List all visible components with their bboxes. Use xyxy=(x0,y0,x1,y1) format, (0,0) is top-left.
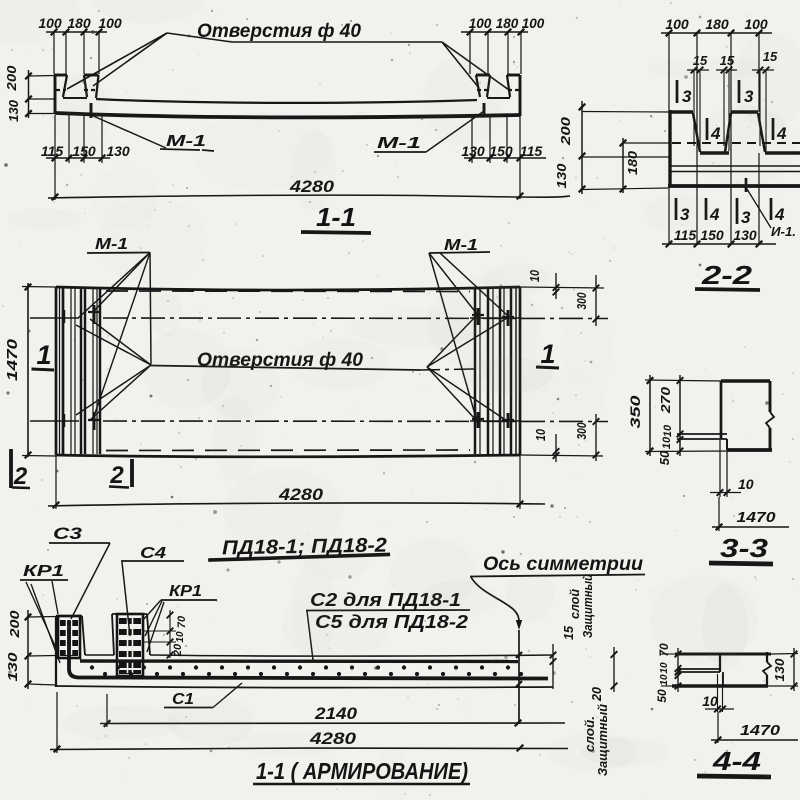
dimensions 15-15-15 of section 2-2 xyxy=(687,49,778,151)
svg-text:130: 130 xyxy=(5,651,20,681)
cover layer 20 dimension (zashchitny sloy) xyxy=(582,647,617,776)
label C1 with leader xyxy=(164,683,242,708)
svg-text:10: 10 xyxy=(662,424,674,437)
dimension 4280, section 1-1 xyxy=(48,163,570,200)
dimensions 10 and 300 top-right of plan xyxy=(520,269,604,326)
dimension 10 below section 4-4 xyxy=(702,674,734,712)
svg-text:130: 130 xyxy=(772,658,787,682)
dimension 130 right of section 4-4 xyxy=(768,648,798,691)
dashed hidden lines in plan xyxy=(106,291,470,451)
svg-text:1470: 1470 xyxy=(740,722,781,739)
rebar cage KR1 number 1 xyxy=(58,616,80,658)
svg-text:200: 200 xyxy=(4,65,19,92)
svg-text:1470: 1470 xyxy=(737,509,777,526)
dimension 1470 left of plan xyxy=(4,283,56,458)
svg-text:Отверстия ф 40: Отверстия ф 40 xyxy=(197,21,361,42)
dimensions 10 and 300 bottom-right of plan xyxy=(520,414,603,462)
svg-text:130: 130 xyxy=(733,227,757,243)
dimension 115-150-130 bottom of section 2-2 xyxy=(662,153,776,247)
plan view slab outline xyxy=(56,287,520,457)
dimensions 70-10-10-50 left of section 4-4 xyxy=(655,643,681,703)
bottom rebar C1 bent bar xyxy=(69,621,548,679)
section mark 2 far-left below plan xyxy=(11,449,30,490)
dimension 180 inner-left of section 2-2 xyxy=(620,138,671,193)
hole leader fan in plan xyxy=(76,315,507,421)
title 1-1 xyxy=(301,202,371,233)
svg-text:2140: 2140 xyxy=(314,704,358,723)
dimension 4280 below plan xyxy=(48,455,545,509)
svg-text:3-3: 3-3 xyxy=(720,533,769,563)
small dimensions 70-10-20 near cage 2 xyxy=(143,610,188,658)
rebar callout 3, right rib section 2-2 xyxy=(739,80,754,106)
ribs of section 2-2 xyxy=(670,112,765,152)
svg-text:100: 100 xyxy=(522,16,545,31)
svg-text:С3: С3 xyxy=(53,524,83,543)
svg-text:Защитный: Защитный xyxy=(580,574,595,638)
rebar callouts 3-4-3-4 below body, section 2-2 xyxy=(676,198,785,227)
right end block of slab, section 1-1 xyxy=(476,75,520,117)
dimension 200 and 130 left of section 2-2 xyxy=(554,101,670,194)
title 2-2 xyxy=(695,260,760,290)
title 1-1 (armirovanie) xyxy=(253,758,470,784)
rebar callout 3, left rib section 2-2 xyxy=(677,80,692,106)
svg-text:3: 3 xyxy=(682,87,692,106)
svg-text:КР1: КР1 xyxy=(169,583,202,600)
svg-text:100: 100 xyxy=(744,16,768,32)
label M-1 left, plan xyxy=(78,236,151,419)
section mark 1 left of plan xyxy=(32,340,55,370)
svg-text:200: 200 xyxy=(7,610,22,639)
svg-text:180: 180 xyxy=(496,16,519,31)
centre line and label 'Otverstiya f40' in plan xyxy=(151,350,474,371)
right end rib lines in plan xyxy=(475,288,511,454)
section mark 2 mid below plan xyxy=(109,459,132,489)
anchor rows and M-1 cross marks in plan xyxy=(30,305,520,430)
dimension 10 below section 3-3 xyxy=(710,440,754,497)
svg-text:200: 200 xyxy=(558,116,573,146)
dimensions 270-10-10-50 of section 3-3 xyxy=(657,375,683,465)
svg-text:130: 130 xyxy=(6,99,21,122)
svg-text:2: 2 xyxy=(109,462,124,489)
svg-text:300: 300 xyxy=(574,292,589,310)
label C4 with leader xyxy=(121,545,184,636)
svg-text:10: 10 xyxy=(661,436,673,449)
dimension 100-180-100 top-right of section 1-1 xyxy=(461,16,545,74)
svg-text:М-1: М-1 xyxy=(377,135,421,152)
dimension 1470 of section 3-3 xyxy=(712,497,789,531)
svg-text:С4: С4 xyxy=(140,545,166,562)
embedded item mark I-1 with leader, section 2-2 xyxy=(746,178,796,239)
svg-text:130: 130 xyxy=(106,143,130,159)
rebar callout 4, between ribs section 2-2 xyxy=(707,118,721,143)
top rebar C2/C5 bar xyxy=(80,659,518,663)
svg-text:Ось симметрии: Ось симметрии xyxy=(483,554,643,575)
upper transverse bar dots xyxy=(90,665,510,669)
section mark 1 right of plan xyxy=(536,339,559,369)
svg-text:50: 50 xyxy=(657,450,672,465)
svg-text:50: 50 xyxy=(655,689,669,703)
svg-text:115: 115 xyxy=(520,143,543,159)
cover layer 15 dimension (zashchitny sloy) xyxy=(550,574,595,689)
svg-text:1: 1 xyxy=(36,340,51,370)
label holes 'Otverstiya f40' with leader lines (section 1-1) xyxy=(67,21,509,90)
svg-text:10: 10 xyxy=(702,693,718,709)
label C3 with leader xyxy=(49,524,110,619)
lower transverse bar dots xyxy=(103,672,523,676)
title 4-4 xyxy=(697,746,771,777)
title 3-3 xyxy=(709,533,773,564)
dimension 100-180-100 top of section 2-2 xyxy=(661,16,772,244)
svg-text:4: 4 xyxy=(774,205,785,224)
label axis of symmetry with curved leader and arrow xyxy=(470,554,645,724)
svg-text:1-1 ( АРМИРОВАНИЕ): 1-1 ( АРМИРОВАНИЕ) xyxy=(256,758,468,784)
svg-text:3: 3 xyxy=(741,208,751,227)
svg-text:15: 15 xyxy=(562,625,576,640)
left end block of slab, section 1-1 xyxy=(54,75,99,118)
dimension 130-150-115 bottom-right of section 1-1 xyxy=(461,116,546,163)
section 3-3 body xyxy=(677,381,774,450)
dimension 200 and 130 left of section 1-1 xyxy=(4,65,56,122)
label M-1 left, section 1-1 xyxy=(91,115,214,151)
slab body lines, section 1-1 xyxy=(55,99,520,117)
svg-text:20: 20 xyxy=(590,687,604,702)
svg-text:10: 10 xyxy=(659,662,670,674)
label C2/C5 block with leader xyxy=(306,590,470,660)
svg-text:130: 130 xyxy=(554,163,569,189)
svg-text:350: 350 xyxy=(627,395,643,428)
svg-text:100: 100 xyxy=(665,16,689,32)
svg-text:10: 10 xyxy=(175,631,186,643)
svg-text:20: 20 xyxy=(172,643,184,657)
dimension 115-150-130 bottom-left of section 1-1 xyxy=(41,115,130,163)
svg-text:180: 180 xyxy=(625,150,640,175)
svg-text:10: 10 xyxy=(533,428,548,441)
svg-text:КР1: КР1 xyxy=(23,563,64,580)
svg-text:слой: слой xyxy=(567,589,582,619)
concrete outline of armature view xyxy=(56,614,553,688)
rebar callout 4, right of ribs section 2-2 xyxy=(773,118,787,143)
svg-text:И-1.: И-1. xyxy=(771,224,796,239)
svg-text:4-4: 4-4 xyxy=(712,746,762,776)
svg-text:115: 115 xyxy=(41,143,64,159)
svg-text:10: 10 xyxy=(738,476,754,492)
rebar cage KR1 number 2 xyxy=(117,614,143,676)
dimension 200 and 130 left of armature view xyxy=(5,610,56,689)
dimension 1470 of section 4-4 xyxy=(711,712,798,743)
label KR1 first with leader fan xyxy=(20,563,68,663)
label M-1 right, plan xyxy=(429,237,508,418)
label M-1 right, section 1-1 xyxy=(374,111,484,152)
dimension 4280 below armature view xyxy=(50,692,568,753)
section 4-4 body xyxy=(661,652,771,686)
dimension 100-180-100 top-left of section 1-1 xyxy=(38,15,122,74)
svg-text:180: 180 xyxy=(705,16,729,32)
dimension 2140 below armature view xyxy=(100,694,565,727)
dash-dot hole axis lines in plan xyxy=(103,318,608,422)
svg-text:10: 10 xyxy=(659,674,670,686)
body of section 2-2 xyxy=(668,110,800,187)
left end rib lines in plan xyxy=(63,288,100,454)
svg-text:70: 70 xyxy=(176,615,188,628)
svg-text:270: 270 xyxy=(658,386,673,414)
svg-text:1470: 1470 xyxy=(4,338,21,381)
svg-text:2-2: 2-2 xyxy=(701,260,753,290)
svg-text:2: 2 xyxy=(13,463,28,490)
title PD18-1; PD18-2 xyxy=(208,534,390,560)
label KR1 second with leader fan xyxy=(143,583,217,652)
dimension 350 left of section 3-3 xyxy=(627,375,728,456)
